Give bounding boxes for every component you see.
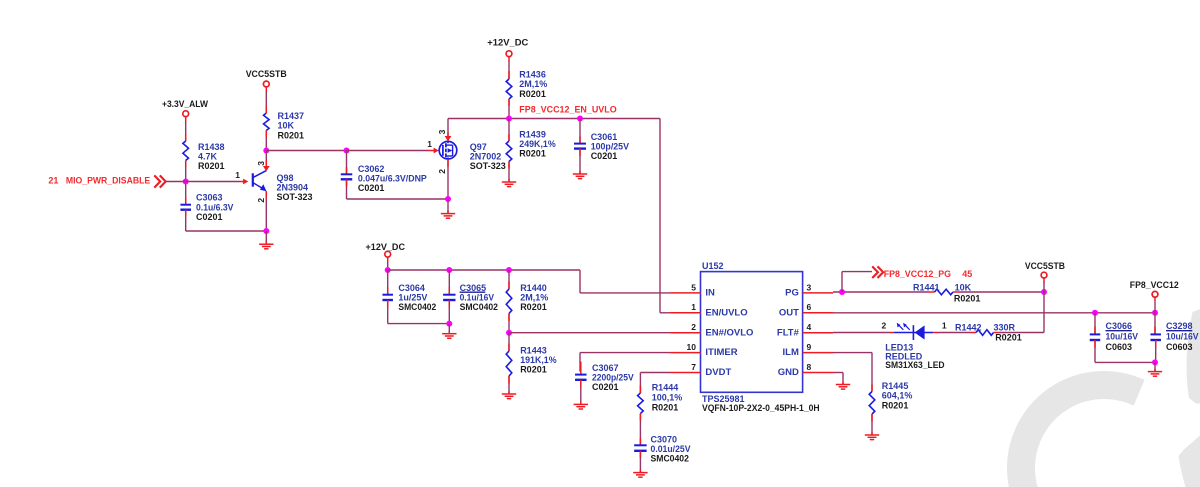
wire	[933, 332, 970, 334]
wire	[871, 385, 873, 392]
wire	[185, 161, 187, 205]
resistor R1438	[183, 141, 225, 171]
ground	[441, 214, 455, 219]
wire	[447, 199, 449, 213]
svg-text:VCC5STB: VCC5STB	[246, 69, 287, 79]
net label FP8_VCC12_EN_UVLO	[519, 104, 616, 114]
wire DVDT	[640, 373, 670, 394]
IC U152 TPS25981	[670, 261, 833, 413]
svg-text:6: 6	[807, 302, 812, 312]
wire	[265, 191, 267, 231]
resistor R1436	[506, 70, 547, 99]
node R1436 bus	[506, 116, 512, 122]
svg-text:2N7002: 2N7002	[470, 152, 502, 162]
node Q97 source gnd	[445, 196, 451, 202]
svg-text:C0603: C0603	[1166, 342, 1193, 352]
wire	[347, 198, 449, 200]
svg-text:R1437: R1437	[278, 111, 305, 121]
svg-text:330R: 330R	[994, 322, 1016, 332]
svg-text:4: 4	[807, 322, 812, 332]
wire	[448, 324, 450, 334]
node R1441 VCC5STB	[1041, 289, 1047, 295]
wire	[447, 159, 449, 199]
svg-text:SMC0402: SMC0402	[651, 454, 689, 464]
capacitor C3061	[574, 132, 629, 161]
capacitor C3064	[382, 283, 436, 312]
svg-text:U152: U152	[702, 261, 724, 271]
svg-text:R1438: R1438	[198, 142, 225, 152]
resistor R1445	[869, 381, 912, 414]
wire	[265, 91, 267, 113]
svg-text:FP8_VCC12: FP8_VCC12	[1130, 280, 1179, 290]
wire	[265, 131, 267, 151]
wire	[448, 270, 450, 294]
svg-text:+12V_DC: +12V_DC	[487, 37, 529, 47]
svg-text:R0201: R0201	[882, 401, 909, 411]
svg-text:+12V_DC: +12V_DC	[366, 242, 406, 252]
wire	[579, 149, 581, 174]
wire	[508, 314, 510, 333]
svg-text:FLT#: FLT#	[777, 327, 800, 338]
capacitor C3065	[443, 283, 498, 312]
wire	[448, 300, 450, 324]
svg-text:EN#/OVLO: EN#/OVLO	[705, 327, 753, 338]
svg-text:C3298: C3298	[1166, 321, 1193, 331]
node C3066 top	[1092, 310, 1098, 316]
svg-text:3: 3	[256, 161, 266, 166]
svg-text:R0201: R0201	[954, 294, 981, 304]
node FP8_VCC12	[1152, 310, 1158, 316]
power VCC5STB	[246, 69, 287, 92]
svg-text:R1443: R1443	[520, 345, 547, 355]
wire	[265, 151, 267, 167]
svg-text:EN/UVLO: EN/UVLO	[705, 307, 747, 318]
svg-text:GND: GND	[778, 367, 799, 378]
wire	[387, 300, 389, 324]
node MIO_PWR_DISABLE	[183, 179, 189, 185]
wire	[580, 362, 582, 375]
wire	[508, 376, 510, 394]
node Q98 emitter gnd	[263, 228, 269, 234]
wire	[871, 414, 873, 435]
node C3061 bus	[577, 116, 583, 122]
svg-text:5: 5	[691, 282, 696, 292]
svg-text:+3.3V_ALW: +3.3V_ALW	[162, 99, 208, 109]
wire FP8_VCC12_EN_UVLO bus	[448, 118, 660, 120]
svg-text:R0201: R0201	[520, 302, 547, 312]
svg-text:0.1u/16V: 0.1u/16V	[460, 293, 494, 303]
capacitor C3062	[341, 164, 427, 193]
svg-text:100,1%: 100,1%	[652, 393, 683, 403]
svg-text:OUT: OUT	[779, 307, 799, 318]
ground	[259, 244, 273, 249]
svg-text:3: 3	[437, 129, 447, 134]
wire	[579, 119, 581, 144]
svg-text:100p/25V: 100p/25V	[591, 142, 629, 152]
wire	[639, 386, 641, 394]
svg-text:R0201: R0201	[278, 130, 305, 140]
svg-text:R0201: R0201	[198, 161, 225, 171]
ground	[633, 473, 647, 478]
svg-text:7: 7	[691, 362, 696, 372]
wire	[508, 119, 510, 142]
capacitor C3063	[180, 193, 233, 222]
svg-text:VCC5STB: VCC5STB	[1025, 261, 1065, 271]
ground	[836, 385, 850, 390]
svg-text:9: 9	[807, 342, 812, 352]
capacitor C3298	[1150, 321, 1198, 352]
svg-text:2: 2	[256, 198, 266, 203]
wire	[387, 262, 389, 270]
ground	[574, 404, 588, 409]
svg-text:FP8_VCC12_EN_UVLO: FP8_VCC12_EN_UVLO	[519, 104, 616, 114]
svg-text:SMC0402: SMC0402	[460, 302, 498, 312]
svg-text:10K: 10K	[278, 121, 295, 131]
wire	[508, 333, 510, 351]
wire ILM	[833, 353, 872, 392]
svg-text:21: 21	[48, 176, 58, 186]
svg-text:1: 1	[427, 139, 432, 149]
svg-text:10K: 10K	[955, 282, 972, 292]
svg-text:R1444: R1444	[652, 382, 679, 392]
svg-text:SM31X63_LED: SM31X63_LED	[885, 360, 945, 370]
wire	[186, 230, 267, 232]
svg-text:Q98: Q98	[277, 173, 294, 183]
power +3.3V_ALW	[162, 99, 208, 121]
svg-text:45: 45	[962, 269, 972, 279]
svg-text:ILM: ILM	[783, 347, 799, 358]
ground	[865, 435, 879, 440]
wire	[842, 272, 872, 292]
svg-text:DVDT: DVDT	[705, 367, 731, 378]
svg-text:604,1%: 604,1%	[882, 391, 913, 401]
resistor R1442	[955, 322, 1022, 342]
wire +12V rail	[388, 270, 670, 293]
power +12V_DC	[487, 37, 529, 61]
net label MIO_PWR_DISABLE	[48, 175, 165, 187]
wire	[346, 151, 348, 175]
node C3066 C3298 gnd	[1152, 359, 1158, 365]
svg-text:R0201: R0201	[519, 89, 546, 99]
transistor Q98	[235, 161, 312, 203]
svg-text:R1442: R1442	[955, 322, 982, 332]
wire	[508, 61, 510, 79]
wire	[639, 451, 641, 472]
resistor R1443	[506, 345, 556, 376]
wire	[445, 119, 452, 142]
node C3065 top	[446, 267, 452, 273]
svg-text:C0201: C0201	[591, 151, 618, 161]
ground	[442, 334, 456, 339]
node Q98 collector	[263, 148, 269, 154]
wire	[387, 270, 389, 294]
wire ITIMER	[580, 353, 670, 372]
svg-text:C0201: C0201	[196, 212, 223, 222]
svg-text:2: 2	[437, 169, 447, 174]
wire	[1043, 282, 1045, 292]
wire	[1094, 340, 1096, 362]
net label FP8_VCC12_PG	[872, 266, 972, 279]
wire	[388, 323, 450, 325]
power +12V_DC	[366, 242, 406, 262]
svg-text:1u/25V: 1u/25V	[398, 293, 427, 303]
svg-text:8: 8	[807, 362, 812, 372]
node C3064 C3065 gnd	[446, 321, 452, 327]
svg-text:C3063: C3063	[196, 193, 223, 203]
resistor R1444	[638, 382, 683, 413]
svg-text:1: 1	[235, 170, 240, 180]
ground	[502, 394, 516, 399]
svg-text:C3062: C3062	[358, 164, 385, 174]
wire	[347, 150, 435, 152]
watermark	[1021, 309, 1200, 487]
capacitor C3066	[1090, 321, 1138, 352]
svg-text:R0201: R0201	[520, 365, 547, 375]
svg-text:R1436: R1436	[519, 70, 546, 80]
svg-text:SMC0402: SMC0402	[398, 302, 436, 312]
svg-text:FP8_VCC12_PG: FP8_VCC12_PG	[884, 269, 951, 279]
svg-text:R1439: R1439	[519, 130, 546, 140]
wire GND	[833, 373, 843, 385]
wire	[1043, 292, 1045, 333]
svg-text:R0201: R0201	[519, 149, 546, 159]
svg-text:R0201: R0201	[995, 332, 1022, 342]
wire	[265, 231, 267, 244]
wire	[185, 121, 187, 141]
resistor R1439	[506, 130, 556, 162]
svg-text:0.1u/6.3V: 0.1u/6.3V	[196, 202, 233, 212]
svg-text:2200p/25V: 2200p/25V	[592, 373, 634, 383]
wire	[346, 179, 348, 199]
wire	[166, 181, 240, 183]
node PG branch	[839, 289, 845, 295]
wire	[1154, 313, 1156, 335]
wire FLT#	[833, 332, 894, 334]
wire OUT FP8_VCC12	[833, 312, 1155, 314]
wire	[639, 414, 641, 446]
svg-text:R1445: R1445	[882, 381, 909, 391]
svg-text:C0201: C0201	[592, 382, 619, 392]
capacitor C3070	[634, 434, 690, 463]
svg-text:0.047u/6.3V/DNP: 0.047u/6.3V/DNP	[358, 173, 427, 183]
resistor R1441	[913, 282, 980, 303]
LED LED13	[882, 321, 947, 370]
svg-text:C3066: C3066	[1106, 321, 1133, 331]
node +12V rail	[385, 267, 391, 273]
svg-text:R1441: R1441	[913, 282, 940, 292]
svg-text:10u/16V: 10u/16V	[1166, 332, 1199, 342]
wire	[1154, 362, 1156, 371]
node C3062 top	[344, 148, 350, 154]
wire	[1095, 361, 1155, 363]
svg-text:191K,1%: 191K,1%	[520, 355, 556, 365]
wire	[185, 210, 187, 231]
svg-text:C3061: C3061	[591, 132, 618, 142]
capacitor C3067	[575, 363, 634, 392]
wire	[1094, 313, 1096, 335]
resistor R1437	[264, 111, 305, 140]
svg-text:3: 3	[807, 282, 812, 292]
svg-text:2M,1%: 2M,1%	[519, 79, 547, 89]
power FP8_VCC12	[1130, 280, 1179, 302]
svg-text:2: 2	[691, 322, 696, 332]
ground	[502, 182, 516, 187]
svg-text:C3070: C3070	[651, 434, 678, 444]
resistor R1440	[506, 283, 548, 314]
wire	[508, 99, 510, 119]
svg-text:C3067: C3067	[592, 363, 619, 373]
svg-text:VQFN-10P-2X2-0_45PH-1_0H: VQFN-10P-2X2-0_45PH-1_0H	[702, 403, 820, 413]
wire	[1154, 302, 1156, 313]
svg-text:C0201: C0201	[358, 183, 385, 193]
svg-text:PG: PG	[785, 288, 799, 299]
node R1440 top	[506, 267, 512, 273]
svg-text:1: 1	[942, 321, 947, 331]
svg-text:R1440: R1440	[520, 283, 547, 293]
wire EN#/OVLO	[509, 332, 670, 334]
wire	[508, 162, 510, 182]
svg-text:R0201: R0201	[652, 403, 679, 413]
wire	[266, 150, 346, 152]
ground	[1148, 372, 1162, 377]
node R1440 R1443 EN#	[506, 330, 512, 336]
svg-text:Q97: Q97	[470, 142, 487, 152]
svg-text:C3064: C3064	[398, 283, 425, 293]
svg-text:2M,1%: 2M,1%	[520, 293, 548, 303]
svg-text:SOT-323: SOT-323	[277, 192, 313, 202]
svg-text:IN: IN	[705, 288, 715, 299]
wire	[508, 270, 510, 289]
wire	[580, 380, 582, 404]
svg-text:10u/16V: 10u/16V	[1106, 332, 1139, 342]
wire EN/UVLO vertical	[660, 119, 670, 313]
ground	[573, 174, 587, 179]
svg-text:C0603: C0603	[1106, 342, 1133, 352]
svg-text:2N3904: 2N3904	[277, 183, 309, 193]
svg-text:ITIMER: ITIMER	[705, 347, 737, 358]
svg-text:MIO_PWR_DISABLE: MIO_PWR_DISABLE	[66, 176, 150, 186]
power VCC5STB	[1025, 261, 1065, 283]
svg-text:0.01u/25V: 0.01u/25V	[651, 444, 691, 454]
svg-text:249K,1%: 249K,1%	[519, 139, 555, 149]
svg-text:C3065: C3065	[460, 283, 487, 293]
transistor Q97	[427, 129, 506, 173]
wire PG	[833, 291, 1044, 293]
svg-text:SOT-323: SOT-323	[470, 161, 506, 171]
svg-text:1: 1	[691, 302, 696, 312]
wire	[1155, 340, 1157, 362]
wire	[1000, 332, 1044, 334]
svg-text:10: 10	[687, 342, 697, 352]
svg-text:2: 2	[882, 321, 887, 331]
svg-text:4.7K: 4.7K	[198, 152, 218, 162]
